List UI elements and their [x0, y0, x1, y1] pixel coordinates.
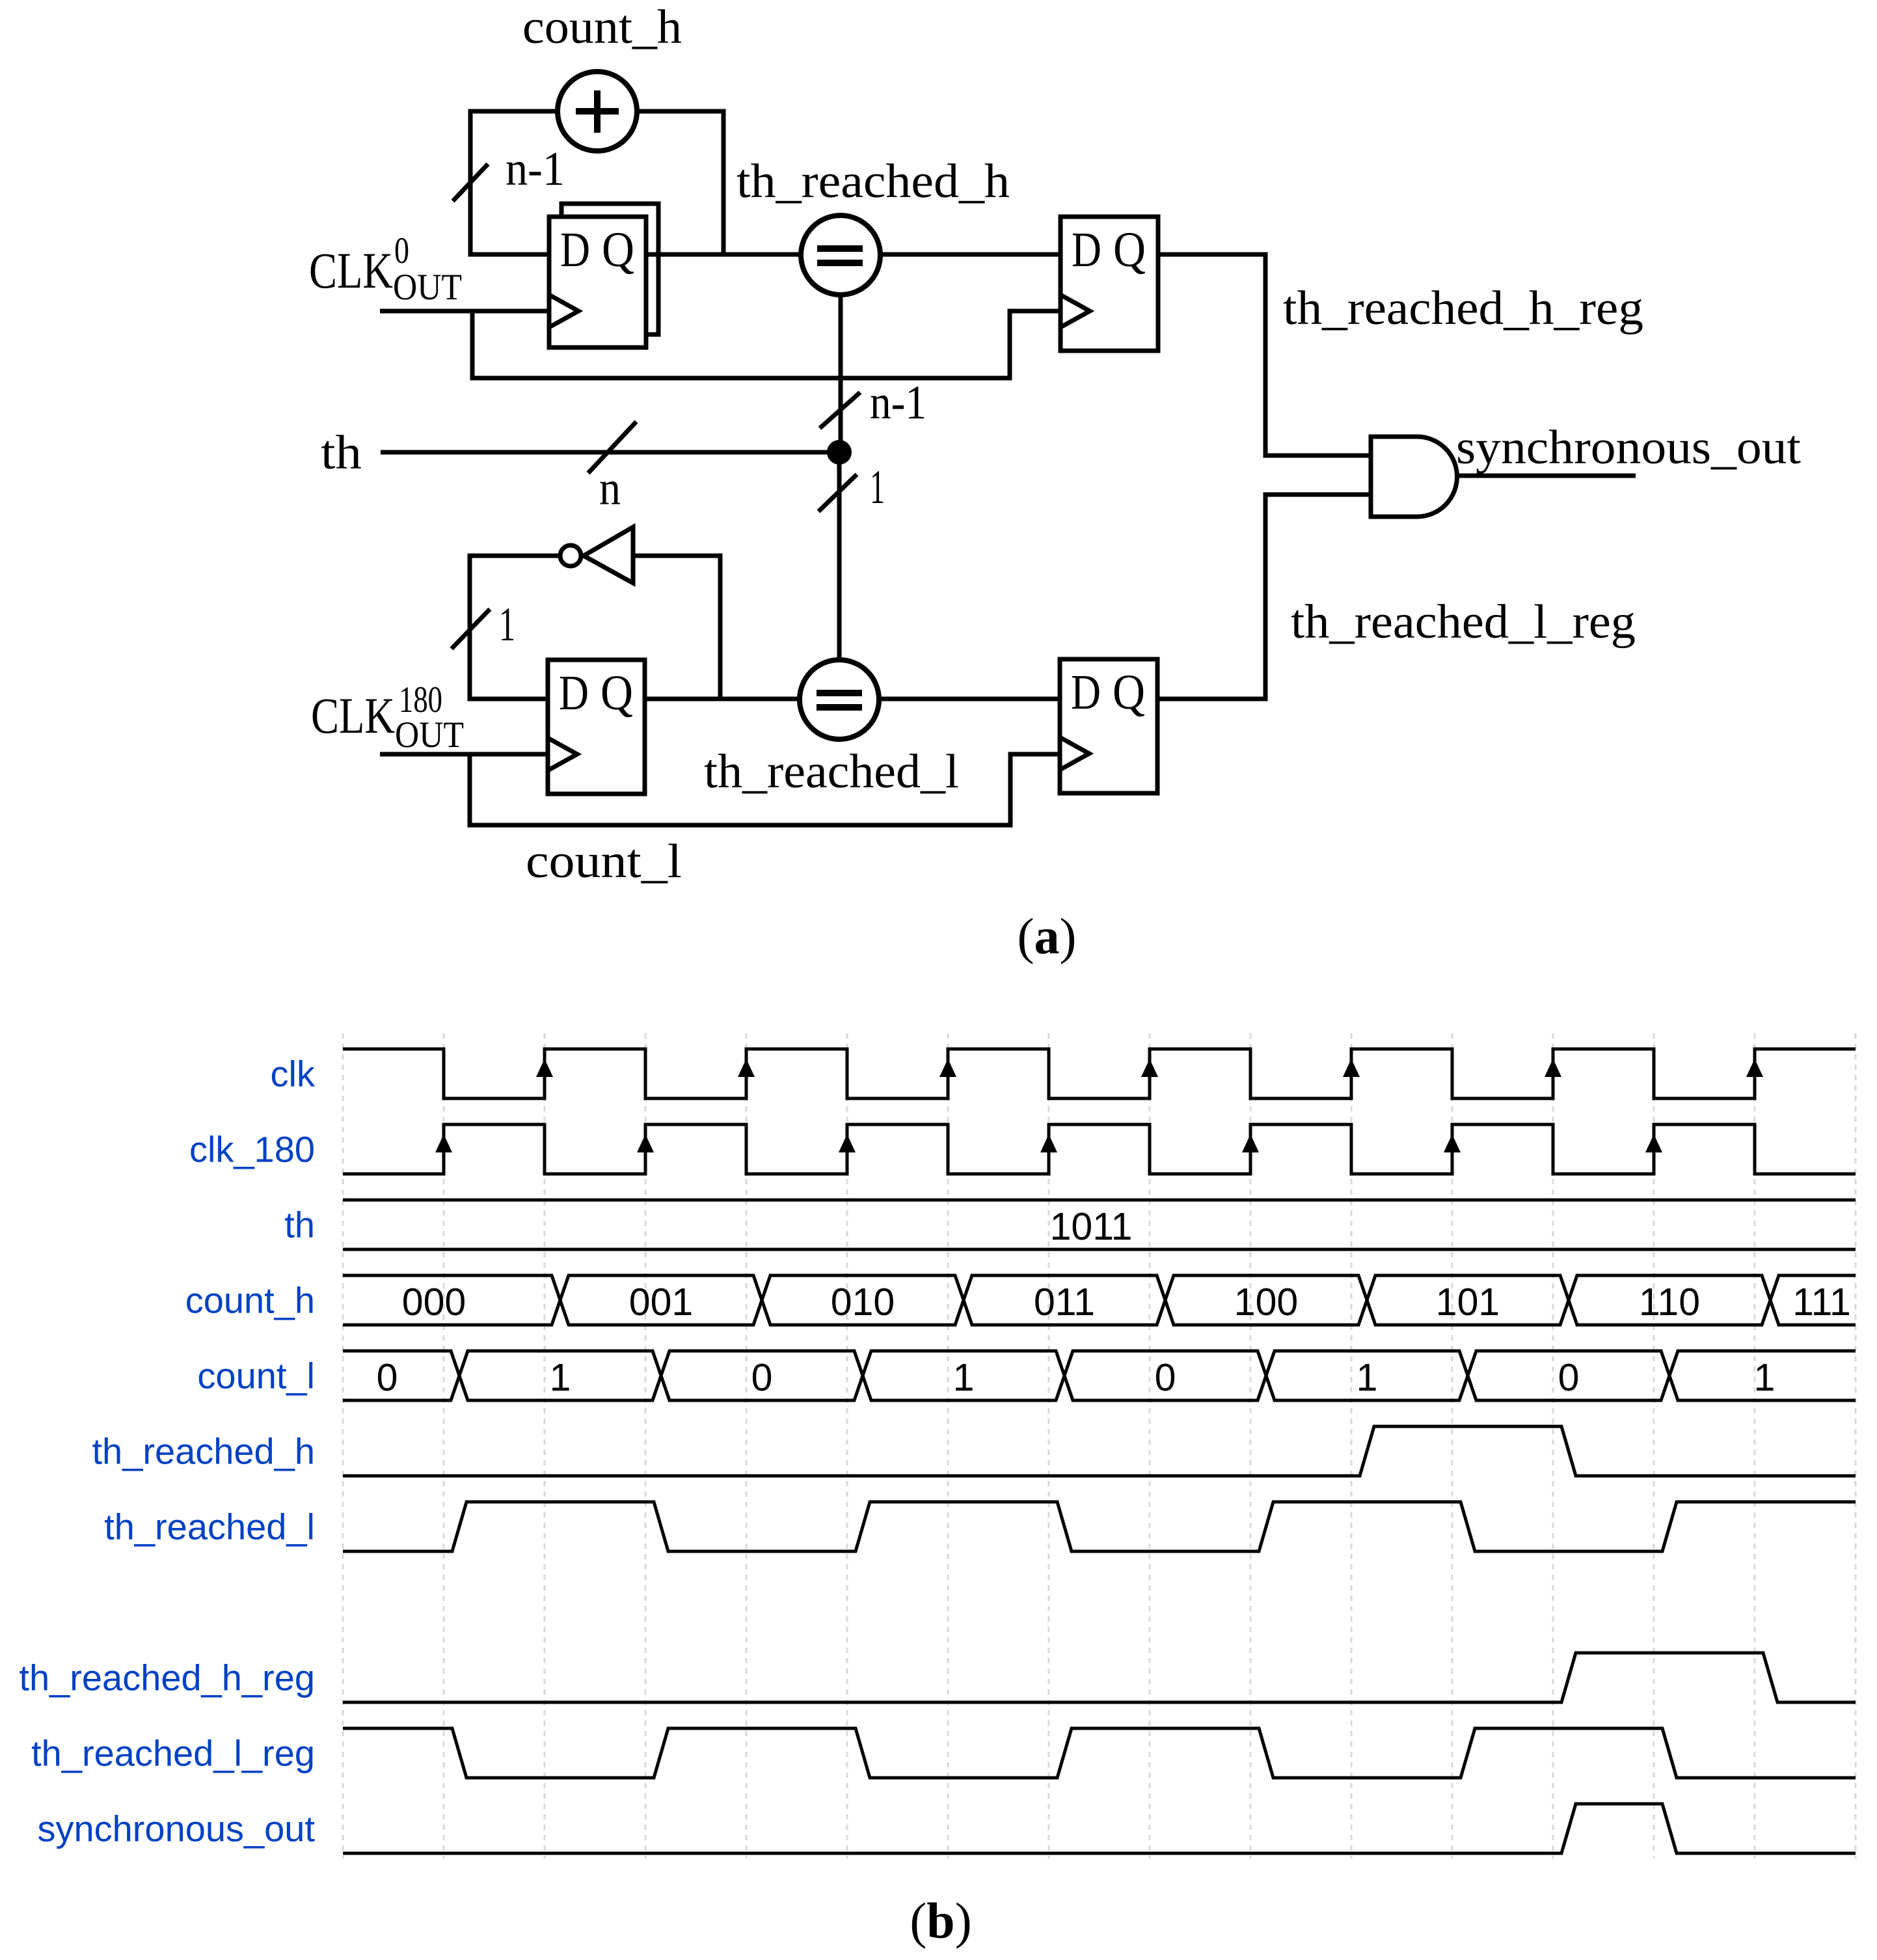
wire CLK_OUT^180 to lower sync register clock — [470, 754, 1060, 825]
wire th lsb to lower comparator — [837, 452, 842, 660]
svg-text:n-1: n-1 — [506, 143, 565, 196]
svg-text:1: 1 — [870, 461, 885, 514]
svg-text:(a): (a) — [1018, 908, 1077, 964]
timing grid — [343, 1033, 1856, 1858]
signal th bus waveform — [343, 1200, 1856, 1249]
svg-text:1011: 1011 — [1050, 1205, 1133, 1248]
svg-text:D: D — [560, 223, 590, 277]
wire counter Q to adder input — [637, 111, 723, 254]
svg-text:OUT: OUT — [395, 715, 464, 755]
wire th upper bits to comparator — [839, 295, 843, 452]
svg-text:1: 1 — [1357, 1356, 1378, 1399]
junction node th — [827, 440, 852, 465]
svg-text:th: th — [284, 1205, 315, 1245]
svg-text:100: 100 — [1234, 1281, 1298, 1324]
wire CLK_OUT^180 to count_l clock — [380, 752, 548, 757]
svg-text:th_reached_h: th_reached_h — [92, 1431, 315, 1472]
wire CLK_OUT^0 to counter clock — [380, 309, 549, 314]
signal th_reached_l_reg waveform — [343, 1728, 1856, 1778]
svg-text:th_reached_l: th_reached_l — [704, 745, 959, 798]
svg-text:1: 1 — [499, 598, 515, 651]
svg-text:110: 110 — [1639, 1281, 1700, 1324]
adder (+1 incrementer) — [558, 72, 637, 151]
svg-text:Q: Q — [602, 223, 634, 277]
svg-text:th_reached_l_reg: th_reached_l_reg — [31, 1733, 315, 1774]
svg-text:D: D — [559, 666, 589, 720]
svg-text:CLK: CLK — [309, 242, 393, 299]
svg-text:0: 0 — [1155, 1356, 1176, 1399]
svg-text:CLK: CLK — [311, 687, 395, 744]
svg-text:n: n — [599, 462, 621, 515]
svg-text:th_reached_h: th_reached_h — [736, 155, 1010, 208]
wire th_reached_l to sync register D — [879, 697, 1060, 701]
comparator (=) count_l vs th lsb — [800, 660, 879, 739]
sync flip-flop th_reached_l_reg — [1060, 659, 1157, 793]
svg-text:101: 101 — [1436, 1281, 1500, 1324]
svg-text:th_reached_h_reg: th_reached_h_reg — [19, 1657, 315, 1698]
svg-text:th_reached_l: th_reached_l — [104, 1506, 315, 1547]
svg-text:001: 001 — [629, 1281, 693, 1324]
input label CLK_OUT^0 — [309, 230, 462, 308]
svg-text:synchronous_out: synchronous_out — [1456, 421, 1801, 474]
svg-text:010: 010 — [831, 1281, 895, 1324]
wire th input — [381, 450, 839, 455]
wire CLK_OUT^0 to register clock — [472, 311, 1060, 378]
signal clk waveform — [343, 1049, 1856, 1098]
wire count_l Q to inverter input — [633, 556, 720, 699]
signal clk_180 waveform — [343, 1124, 1856, 1174]
input label CLK_OUT^180 — [311, 679, 464, 755]
wire count_l to comparator — [645, 697, 800, 701]
svg-text:0: 0 — [1558, 1356, 1580, 1399]
signal th_reached_h_reg waveform — [343, 1653, 1856, 1702]
svg-text:count_l: count_l — [526, 835, 682, 888]
svg-text:synchronous_out: synchronous_out — [37, 1808, 315, 1849]
wire adder output to counter D input — [470, 111, 558, 254]
signal count_l bus waveform — [343, 1351, 1856, 1400]
signal count_h bus waveform — [343, 1275, 1856, 1325]
svg-text:n-1: n-1 — [870, 376, 926, 429]
bus width slash 1 (th lsb) — [818, 474, 857, 511]
wire count_h to comparator — [646, 252, 801, 257]
svg-text:1: 1 — [953, 1356, 975, 1399]
svg-text:D: D — [1072, 223, 1101, 277]
AND gate U1 — [1371, 437, 1457, 517]
wire synchronous_out — [1457, 474, 1636, 478]
svg-text:1: 1 — [550, 1356, 571, 1399]
svg-text:1: 1 — [1754, 1356, 1776, 1399]
svg-text:th_reached_l_reg: th_reached_l_reg — [1291, 595, 1636, 649]
sync flip-flop th_reached_h_reg — [1060, 217, 1158, 351]
svg-text:D: D — [1071, 665, 1101, 720]
signal synchronous_out waveform — [343, 1804, 1856, 1853]
flip-flop count_l — [548, 660, 645, 794]
wire inverter output to count_l D input — [470, 556, 560, 699]
svg-text:clk_180: clk_180 — [189, 1129, 315, 1170]
wire th_reached_l_reg to AND gate — [1157, 495, 1371, 699]
svg-text:011: 011 — [1034, 1281, 1095, 1324]
bus width slash n (th input) — [588, 422, 636, 473]
wire th_reached_h to sync register D — [880, 252, 1060, 257]
bus width slash n-1 (th upper bits) — [820, 392, 860, 428]
svg-text:count_h: count_h — [185, 1280, 315, 1321]
svg-text:111: 111 — [1792, 1281, 1851, 1324]
svg-text:000: 000 — [402, 1281, 466, 1324]
register bank count_h (D flip-flops) — [549, 204, 658, 347]
comparator (=) count_h vs th upper bits — [801, 215, 880, 295]
svg-text:th: th — [321, 426, 362, 480]
svg-text:Q: Q — [1113, 665, 1145, 720]
signal th_reached_l waveform — [343, 1502, 1856, 1551]
bus width slash n-1 (adder feedback) — [453, 164, 488, 201]
svg-text:count_l: count_l — [197, 1355, 315, 1396]
svg-text:(b): (b) — [910, 1892, 971, 1949]
svg-text:0: 0 — [377, 1356, 398, 1399]
svg-text:count_h: count_h — [522, 1, 682, 54]
svg-text:th_reached_h_reg: th_reached_h_reg — [1283, 282, 1643, 335]
wire th_reached_h_reg to AND gate — [1158, 254, 1371, 456]
svg-text:OUT: OUT — [393, 267, 462, 308]
svg-text:Q: Q — [601, 666, 633, 720]
inverter (count_l feedback) — [560, 527, 633, 583]
svg-text:0: 0 — [751, 1356, 773, 1399]
bus width slash 1 (count_l feedback) — [452, 609, 490, 649]
svg-text:clk: clk — [271, 1054, 316, 1095]
svg-text:Q: Q — [1113, 223, 1146, 277]
signal th_reached_h waveform — [343, 1426, 1856, 1476]
svg-text:0: 0 — [394, 230, 409, 271]
